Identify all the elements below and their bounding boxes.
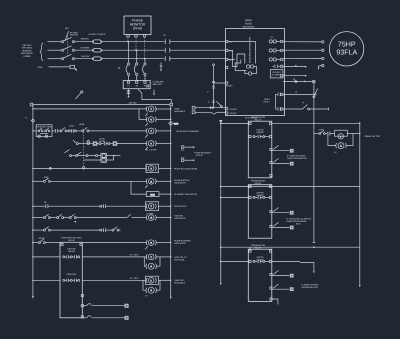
rung spare top (272, 122, 360, 124)
level tap (83, 132, 85, 167)
svg-text:D65RP: D65RP (257, 131, 264, 134)
svg-text:FAULT: FAULT (264, 101, 271, 104)
svg-text:ELAPSED TIME METER: ELAPSED TIME METER (174, 193, 197, 196)
svg-text:IF HIGH SYSTEM: IF HIGH SYSTEM (302, 283, 319, 286)
disconnect switch pole 3 (62, 54, 75, 60)
rb2 internal text (257, 192, 264, 198)
svg-text:CLASS J FUSES: CLASS J FUSES (89, 33, 106, 36)
rb2 out terminal 2 (270, 225, 272, 227)
rb3 out terminal 2 (270, 287, 272, 289)
svg-text:IF LOW LEVEL ALARM AT: IF LOW LEVEL ALARM AT (287, 218, 312, 221)
coil green (146, 240, 156, 246)
rb2 terminal TR (269, 185, 271, 187)
SPD box (123, 81, 150, 89)
1C contact L2 (165, 48, 170, 53)
svg-text:PUMP RUN COMMAND: PUMP RUN COMMAND (176, 130, 199, 133)
U1 terminal +24VDC (226, 108, 228, 110)
overload OL phase 2 (269, 49, 281, 52)
rung remote 2 (221, 185, 360, 187)
svg-text:RUN: RUN (296, 223, 301, 226)
rb3 out contact 1 (272, 270, 293, 277)
rb1 out contact 2 (272, 158, 293, 165)
ppr feed row 1 (33, 256, 60, 258)
ppr internal text (68, 248, 76, 254)
rung ARV (73, 140, 147, 145)
at-speed output wire 2 (283, 75, 307, 77)
SPD terminal 3 (144, 81, 146, 83)
svg-text:ACTIVE: ACTIVE (196, 154, 204, 157)
HOA out contact (52, 129, 60, 133)
phase L2 wire (48, 49, 62, 51)
U1 terminal L3 (226, 58, 228, 60)
right rail arrow top (359, 122, 361, 124)
junction dots spare (313, 123, 314, 124)
svg-text:+24VDC: +24VDC (229, 108, 237, 111)
coil TD (146, 141, 156, 147)
spare TFR contact (314, 131, 335, 136)
pump run indicator coil box (146, 164, 159, 172)
wire L3 fuse to drive (102, 58, 165, 60)
U1 terminal T3 (281, 58, 283, 60)
rb1 out contact 1 (272, 145, 293, 152)
coil red (146, 215, 156, 221)
A5 wiring (144, 257, 146, 266)
fuse F2 (93, 48, 102, 52)
U1 terminal START (226, 82, 228, 84)
remote stub rail 2 (300, 262, 315, 273)
wire L2 fuse to drive (102, 49, 165, 51)
rb3 row exit (272, 260, 300, 262)
svg-text:NOT AVAIL: NOT AVAIL (174, 258, 185, 261)
1C contact L3 (165, 56, 170, 61)
relay block 1 label (251, 116, 266, 122)
relay block 2 label (251, 180, 266, 186)
solenoid box (101, 153, 121, 158)
at-speed terminal (281, 65, 283, 67)
overload OL phase 1 (269, 40, 281, 43)
rb3 terminal TL (249, 250, 251, 252)
ppr internal text 2 (66, 273, 77, 276)
svg-text:AT 7 SEC: AT 7 SEC (130, 277, 140, 280)
rung indicator (33, 167, 146, 169)
mid rail (170, 106, 172, 299)
SPD stub arrow (153, 90, 155, 96)
bypass contactor 1B taps (128, 41, 129, 42)
coil 1 blade (145, 113, 148, 116)
motor terminal g (322, 64, 324, 66)
ppr out terminal c (81, 316, 83, 318)
rung ETM (131, 181, 146, 194)
coil 1 to rail (156, 108, 171, 110)
1B drops to SPD box (128, 75, 130, 80)
coil 1C run (146, 128, 156, 134)
rung HOA (33, 130, 36, 132)
fault output wire top (283, 79, 315, 83)
rb1 terminal TR (269, 122, 271, 124)
svg-text:-24VDC: -24VDC (229, 112, 237, 115)
svg-text:ENTRANCE: ENTRANCE (21, 52, 34, 55)
ppr feed row 2 (33, 279, 60, 281)
U1 internal CT circles (246, 65, 249, 68)
rb3 corner out (270, 298, 278, 305)
SPD terminal 2 (136, 81, 138, 83)
rb1 out terminal 2 (270, 161, 272, 163)
U1 terminal T2 (281, 49, 283, 51)
coil 2 to rail (156, 119, 171, 121)
remote rail blade (313, 89, 318, 98)
svg-text:ORANGE: ORANGE (81, 46, 91, 49)
rung timer pair 2 (82, 279, 145, 281)
svg-text:GND: GND (38, 66, 43, 69)
ppr output wire 1 (83, 304, 128, 308)
A6 wiring (143, 280, 147, 290)
solenoid 2 (84, 156, 114, 163)
svg-text:75HP: 75HP (338, 40, 356, 48)
coil fault box (146, 202, 159, 211)
1C contact L1 (165, 39, 170, 44)
svg-text:REF: REF (65, 27, 70, 30)
ppr terminal TL (61, 243, 63, 245)
fault terminal 1 (281, 93, 283, 95)
PFM terminal 3 (143, 35, 145, 37)
wire ppr to coil G (82, 242, 147, 244)
fault output wire 2 (283, 93, 316, 96)
contact pair 2 (82, 127, 147, 131)
ground stub near CPT (160, 63, 163, 72)
rung backup (33, 178, 147, 183)
1B pole 2 (134, 63, 138, 76)
rb3 contact row (249, 260, 272, 264)
rung solenoid (65, 150, 101, 157)
coil T6 box (146, 276, 159, 284)
left rail (32, 104, 34, 298)
svg-text:1CRBP: 1CRBP (147, 212, 155, 215)
ppr out terminal a (81, 294, 83, 296)
rb1 contact row (249, 135, 272, 139)
fault contact 1 (278, 93, 281, 97)
OUTPUT AT SPEED box (270, 70, 283, 78)
service entrance label (21, 44, 34, 58)
svg-text:BROWN: BROWN (81, 38, 89, 41)
rail junction dots (170, 108, 171, 109)
svg-text:PUMP ROOM PANEL: PUMP ROOM PANEL (287, 220, 308, 223)
disconnect switch pole 1 (62, 37, 75, 43)
disconnect switch pole 2 (62, 46, 75, 52)
svg-text:MICROPROCESSOR CTRL: MICROPROCESSOR CTRL (249, 36, 252, 63)
motor feeder T1 (283, 41, 322, 43)
coil T5 (146, 254, 156, 260)
U1 terminal G (226, 66, 228, 68)
rb1 internal text (257, 129, 264, 135)
svg-text:YELLOW: YELLOW (81, 55, 90, 58)
coil A6 (146, 287, 157, 293)
rung remote 3 (221, 246, 360, 248)
PFM terminal 1 (127, 35, 129, 37)
node dots (127, 41, 128, 42)
spare aux wiring (328, 134, 336, 146)
rb2 feed row (221, 196, 249, 198)
coil 1CR (146, 106, 156, 112)
ppr contact row 2 (63, 279, 80, 282)
fault contact bracket (276, 94, 277, 109)
svg-text:PRESSURE RUN: PRESSURE RUN (302, 286, 319, 289)
rb3 feed stub (249, 247, 251, 250)
SPD ground (127, 89, 131, 98)
svg-text:HIGH: HIGH (79, 123, 85, 126)
spare timer coil T (338, 134, 343, 139)
phase L3 wire (48, 58, 62, 60)
rb1 corner out (270, 174, 272, 176)
svg-text:RVSS: RVSS (245, 22, 252, 25)
svg-text:INDICATOR: INDICATOR (174, 242, 186, 245)
fault output wire 3 (283, 105, 329, 111)
phase monitor PFM box (124, 16, 151, 35)
fault terminal 2 (281, 108, 283, 110)
svg-text:THEN RUN BACKUP: THEN RUN BACKUP (287, 157, 307, 160)
PFM sense wire 3 (144, 37, 146, 59)
1B drop wire 3 (144, 59, 146, 63)
fuse F3 (93, 57, 102, 61)
PFM sense wire 2 (135, 37, 137, 50)
rb2 out contact 2 (272, 222, 293, 229)
rb3 out terminal 1 (270, 273, 272, 275)
PFM sense wire 1 (127, 37, 129, 42)
svg-text:SERVICE: SERVICE (22, 49, 32, 52)
svg-text:(PFM): (PFM) (133, 27, 142, 31)
pressure switch stub (76, 91, 83, 99)
motor ground wire (318, 66, 322, 70)
rb3 internal text (257, 256, 264, 262)
svg-text:93FLA: 93FLA (336, 49, 357, 57)
wire to coil 2 (139, 119, 147, 121)
svg-text:RVSS: RVSS (264, 98, 270, 101)
contact pair 1 (60, 127, 82, 132)
start wire vertical (212, 64, 225, 109)
svg-text:AVAILABLE: AVAILABLE (174, 282, 186, 285)
ppr out terminal b (81, 305, 83, 307)
relay block feed rung (221, 123, 249, 125)
svg-text:3PH 60HZ: 3PH 60HZ (22, 47, 33, 50)
rb3 out contact 2 (272, 284, 293, 291)
SPD terminal 1 (127, 81, 129, 83)
wire L1 fuse to drive (102, 41, 165, 43)
at-speed terminal 2 (281, 75, 283, 77)
spare timer out (347, 133, 360, 135)
ground wire (49, 66, 71, 68)
coil backup (146, 179, 156, 185)
svg-text:AT 7 SEC: AT 7 SEC (130, 254, 140, 257)
wire L1 to fuse (75, 41, 94, 43)
disconnect operator blade (65, 31, 68, 40)
HOA switch contacts (38, 128, 50, 137)
fuse F1 (93, 40, 102, 44)
right rail (359, 123, 361, 286)
spare aux coil A (336, 143, 347, 149)
phase L1 wire (48, 41, 62, 43)
svg-text:RELAY: RELAY (68, 239, 75, 242)
motor terminal 2 (322, 49, 324, 51)
bottom right label (302, 283, 319, 289)
wire tag stubs (181, 146, 194, 148)
ladder right labels (174, 108, 186, 114)
motor M1 (329, 32, 363, 66)
WET diamond (169, 121, 179, 125)
rung spare contacts (33, 227, 121, 232)
control wire tag 1 (192, 106, 225, 109)
right rail arrow bottom (359, 285, 361, 287)
solenoid V (146, 117, 156, 123)
svg-text:480V CPT: 480V CPT (153, 83, 163, 86)
relay block 3 label (251, 244, 266, 250)
rb2 contact row (249, 196, 272, 200)
wire L3 to fuse (75, 58, 94, 60)
svg-text:CONTROL: CONTROL (66, 273, 77, 276)
ppr output wire 2 (83, 316, 128, 320)
U1 terminal T1 (281, 40, 283, 42)
rb2 out terminal 1 (270, 211, 272, 213)
U1 internal wiring loops (228, 41, 256, 63)
svg-text:PUMP RUNNING: PUMP RUNNING (195, 152, 212, 155)
svg-text:LOW: LOW (69, 125, 74, 128)
svg-text:SPARE ON TOP: SPARE ON TOP (365, 135, 381, 138)
U1 terminal L2 (226, 49, 228, 51)
brace (40, 43, 43, 61)
svg-text:1C: 1C (163, 34, 166, 37)
SPD aux terminal (147, 85, 149, 87)
rb2 terminal TL (249, 185, 251, 187)
U1 terminal -24VDC (226, 112, 228, 114)
ground lug (70, 65, 77, 70)
motor feeder T3 (283, 58, 322, 60)
soft starter U1 box (225, 29, 284, 116)
rung fault ind (33, 204, 146, 208)
rb3 feed row (221, 260, 249, 262)
remote rail (313, 82, 315, 187)
svg-text:RESET: RESET (39, 237, 47, 240)
svg-text:2TFR: 2TFR (319, 128, 325, 131)
motor terminal 3 (322, 57, 324, 59)
svg-text:RVSS FAULT: RVSS FAULT (174, 205, 187, 208)
wire L2 to fuse (75, 49, 94, 51)
+V diamond (31, 119, 34, 122)
RVSS FAULT label (264, 98, 271, 104)
fault contact 2 (278, 107, 281, 111)
pump protection relay label (61, 237, 82, 243)
wires 1C to eaton box (170, 41, 226, 43)
rung green ind (33, 239, 60, 244)
OVERALL HOA box (36, 125, 52, 137)
control feed wire from CPT (138, 89, 172, 104)
1B drop wire 1 (128, 42, 130, 63)
overload OL phase 3 (269, 58, 281, 61)
ladder second rail (33, 108, 147, 110)
ETM box (146, 192, 159, 197)
coil feed drop (138, 109, 140, 120)
rb1 note (287, 154, 307, 160)
ppr terminal TR (80, 243, 82, 245)
svg-text:120 VAC: 120 VAC (129, 101, 138, 104)
left rail junction dots (32, 108, 33, 109)
svg-text:AVAILABLE: AVAILABLE (174, 110, 186, 113)
svg-text:OVERALL HOA: OVERALL HOA (37, 126, 52, 129)
coil 2 blade (145, 123, 148, 126)
ladder left rail node (30, 103, 33, 106)
rb3 terminal TR (269, 250, 271, 252)
svg-text:SAVER: SAVER (68, 250, 75, 253)
disconnect linkage (67, 36, 69, 57)
at-speed output wire (283, 66, 307, 68)
rb1 out terminal 1 (270, 148, 272, 150)
svg-text:SWITCH: SWITCH (70, 34, 79, 37)
motor feeder T2 (283, 49, 322, 51)
1B drop wire 2 (136, 50, 138, 63)
svg-text:2CR: 2CR (44, 176, 49, 179)
spare timer box (335, 130, 348, 136)
rb2 out contact 1 (272, 208, 293, 215)
control bus vertical (219, 120, 222, 285)
relay block 1 box (248, 121, 271, 178)
svg-text:480 VAC: 480 VAC (23, 44, 32, 47)
relay block 2 box (248, 185, 271, 239)
PFM terminal 2 (135, 35, 137, 37)
svg-text:ETM: ETM (150, 193, 155, 196)
ladder top rail (33, 103, 170, 105)
control node (170, 103, 173, 106)
U1 terminal L1 (226, 40, 228, 42)
rung red ind (33, 214, 147, 219)
1B pole 1 (126, 63, 130, 76)
svg-text:AT 7.5 SEC: AT 7.5 SEC (146, 148, 157, 151)
rb1 terminal TL (249, 122, 251, 124)
svg-text:4 WIRE: 4 WIRE (23, 55, 31, 58)
ppr contact row 1 (63, 255, 80, 258)
junction dots rungs (220, 186, 222, 188)
control wire tag 2 (192, 111, 225, 114)
svg-text:PUMP: PUMP (99, 140, 106, 143)
coil A5 (146, 263, 157, 269)
svg-text:WET: WET (174, 122, 179, 125)
at-speed contact (273, 65, 281, 69)
svg-text:INDICATOR: INDICATOR (174, 181, 186, 184)
svg-text:INDICATOR: INDICATOR (174, 217, 186, 220)
svg-text:PUMP RUN INDICATOR: PUMP RUN INDICATOR (174, 167, 197, 170)
pump protection relay box (60, 242, 82, 317)
relay block 3 box (248, 249, 271, 301)
remote stub rail (313, 186, 316, 242)
svg-text:START: START (226, 84, 233, 87)
AT PUMP ROOM label (287, 218, 312, 226)
motor terminal 1 (322, 41, 324, 43)
rung timer pair 1 (82, 256, 147, 258)
svg-text:IF TANK NOT AVAIL: IF TANK NOT AVAIL (287, 154, 307, 157)
1B pole 3 (143, 63, 147, 76)
soft starter U1 title (243, 19, 255, 28)
